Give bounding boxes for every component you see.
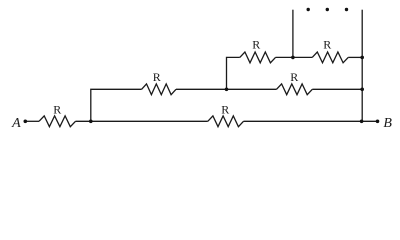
svg-text:B: B xyxy=(383,116,392,131)
svg-text:R: R xyxy=(323,37,331,51)
svg-text:R: R xyxy=(290,70,298,84)
svg-text:R: R xyxy=(153,70,161,84)
svg-text:R: R xyxy=(53,102,61,116)
svg-text:A: A xyxy=(11,116,21,131)
svg-text:R: R xyxy=(221,102,229,116)
svg-text:R: R xyxy=(252,37,260,51)
